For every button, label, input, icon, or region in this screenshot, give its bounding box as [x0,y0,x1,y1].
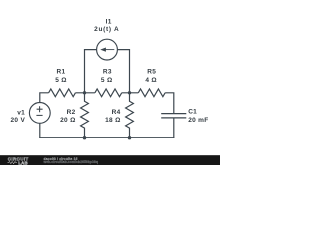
svg-text:v1: v1 [17,109,25,116]
wire I1 right branch [118,50,130,93]
capacitor C1 top plate [161,113,186,115]
svg-text:R3: R3 [103,69,112,76]
wire R5 to C1 top corner [165,93,174,113]
svg-text:4 Ω: 4 Ω [145,77,157,84]
bottom wire right to C1 [130,137,175,139]
voltage source v1 circle [29,103,50,124]
svg-text:C1: C1 [188,108,197,115]
current source I1 arrowhead [100,48,106,52]
resistor R5 [138,89,165,97]
watermark bar [0,155,220,165]
resistor R2 [81,93,89,138]
svg-text:R5: R5 [147,69,156,76]
svg-text:20 V: 20 V [11,117,26,124]
CircuitLab logo resistor zigzag [8,161,17,163]
capacitor C1 bottom plate [161,117,186,119]
svg-text:20 Ω: 20 Ω [60,117,75,124]
svg-text:LAB: LAB [18,160,28,165]
svg-text:web.circuitlab.com/cb2656kp38q: web.circuitlab.com/cb2656kp38q [43,160,98,164]
v1 plus sign [37,106,43,112]
v1 minus sign [36,114,42,116]
svg-text:R2: R2 [67,109,76,116]
node A junction dot [83,91,86,94]
svg-text:18 Ω: 18 Ω [105,117,120,124]
resistor R3 [95,89,122,97]
wire R1 to R3 through node A [75,92,95,94]
svg-text:R1: R1 [57,69,66,76]
svg-text:20 mF: 20 mF [188,117,208,124]
resistor R4 [126,93,134,138]
svg-text:5 Ω: 5 Ω [101,77,113,84]
svg-text:5 Ω: 5 Ω [55,77,67,84]
wire v1 bottom [39,123,41,138]
bottom node dot under R4 [128,136,131,139]
svg-text:R4: R4 [112,109,121,116]
svg-text:2u(t) A: 2u(t) A [94,26,119,33]
wire I1 left branch [85,50,97,93]
wire top-left from v1 to R1 [40,93,49,103]
wire R3 to R5 through node B [122,92,139,94]
bottom node dot under R2 [83,136,86,139]
current source I1 circle [97,39,118,60]
svg-text:I1: I1 [106,19,112,26]
resistor R1 [49,89,76,97]
node B junction dot [128,91,131,94]
current source I1 arrow shaft [105,49,115,51]
bottom wire middle [85,137,130,139]
